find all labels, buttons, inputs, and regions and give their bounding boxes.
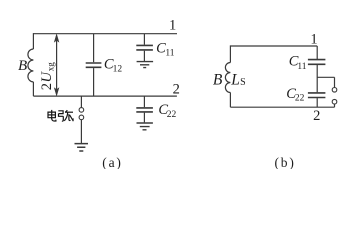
wire: diagram (b) left vertical upper segment <box>229 45 231 62</box>
label 电弧 (electric arc), drawn strokes <box>48 110 74 121</box>
svg-text:L: L <box>230 71 240 88</box>
wire: branch to arc gap (b) horizontal <box>317 76 334 78</box>
ground under C22 (a) <box>137 123 153 130</box>
capacitor C12 lower lead <box>93 68 95 96</box>
wire: diagram (b) right vertical middle segment <box>316 65 318 92</box>
svg-text:2: 2 <box>313 108 320 124</box>
arc gap branch lead from bottom bus <box>80 96 82 108</box>
wire: arc gap (b) lower connection <box>334 104 336 107</box>
capacitor C11 (a) ground lead <box>143 51 145 61</box>
svg-text:B: B <box>18 58 27 74</box>
voltage arrow 2Uxg upper head <box>54 34 58 42</box>
svg-text:1: 1 <box>169 18 176 34</box>
capacitor C12 upper lead <box>93 34 95 63</box>
svg-text:1: 1 <box>310 32 317 48</box>
voltage arrow 2Uxg shaft <box>56 40 58 91</box>
svg-text:12: 12 <box>113 64 123 74</box>
capacitor C11 (a) plates <box>136 45 153 50</box>
wire: diagram (b) right vertical upper segment <box>316 46 318 59</box>
capacitor C11 (b) plates <box>308 60 326 65</box>
capacitor C12 plates <box>86 63 102 67</box>
wire: diagram (a) bottom bus (node 2) <box>33 95 177 97</box>
arc gap upper electrode circle <box>79 108 84 113</box>
capacitor C22 (a) plates <box>136 108 153 112</box>
capacitor C22 (b) plates <box>308 93 326 98</box>
wire: diagram (a) left vertical lower segment <box>32 82 34 96</box>
svg-text:11: 11 <box>165 48 174 58</box>
capacitor C22 (a) ground lead <box>143 113 145 123</box>
wire: diagram (b) top bus <box>230 45 317 47</box>
弧 character : melon part <box>65 110 67 112</box>
svg-text:(a): (a) <box>102 155 122 169</box>
inductor Ls (b) coil <box>225 63 230 93</box>
svg-text:(b): (b) <box>275 155 296 169</box>
capacitor C22 (a) lead <box>143 96 145 107</box>
wire: diagram (b) bottom bus <box>230 106 334 108</box>
arc gap (b) lower electrode circle <box>332 99 337 104</box>
svg-text:2: 2 <box>173 82 180 98</box>
voltage arrow 2Uxg lower head <box>54 88 58 96</box>
inductor B (a) coil <box>28 49 33 82</box>
svg-text:B: B <box>213 72 223 89</box>
arc gap (b) upper electrode circle <box>332 88 337 93</box>
svg-text:S: S <box>240 77 246 88</box>
capacitor C11 (a) lead <box>143 34 145 45</box>
电 character <box>51 110 53 119</box>
wire: diagram (a) top bus (node 1) <box>33 33 177 35</box>
wire: diagram (a) left vertical upper segment <box>32 33 34 49</box>
svg-text:22: 22 <box>295 94 305 104</box>
ground under arc gap <box>75 144 89 151</box>
svg-text:11: 11 <box>297 62 306 72</box>
arc gap lower electrode circle <box>79 115 84 120</box>
wire: branch to arc gap (b) vertical <box>334 77 336 87</box>
svg-text:2Uxg: 2Uxg <box>39 62 55 91</box>
wire: diagram (b) left vertical lower segment <box>229 93 231 108</box>
ground under C11 (a) <box>137 62 154 68</box>
arc gap ground lead <box>80 120 82 144</box>
wire: diagram (b) right vertical lower segment <box>316 98 318 107</box>
svg-text:22: 22 <box>167 110 177 120</box>
弧 character : bow radical <box>58 111 63 114</box>
